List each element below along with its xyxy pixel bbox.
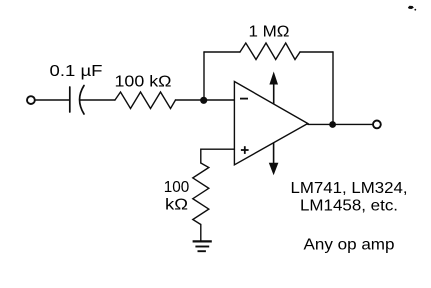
- speckle dot (scan artifact): [414, 9, 416, 11]
- capacitor C1 0.1uF left plate: [69, 87, 71, 112]
- resistor R3 100k (vertical zigzag): [193, 163, 209, 225]
- wire input to capacitor: [36, 99, 70, 101]
- V+ supply arrow (up): [269, 72, 278, 105]
- op-amp U1 plus pin label: [241, 146, 249, 154]
- svg-text:LM741, LM324,: LM741, LM324,: [291, 180, 408, 197]
- op-amp U1 minus pin label: [240, 98, 248, 100]
- op-amp U1 triangle: [234, 82, 307, 165]
- resistor R1 100k (horizontal zigzag): [115, 92, 176, 109]
- wire feedback top right: [300, 51, 333, 53]
- svg-text:100 kΩ: 100 kΩ: [115, 73, 172, 90]
- wire R1 to inverting input node: [176, 99, 235, 101]
- wire feedback top left: [204, 51, 240, 53]
- ground: [193, 241, 212, 251]
- resistor R2 1M (feedback zigzag): [240, 43, 300, 60]
- svg-text:0.1 µF: 0.1 µF: [50, 63, 103, 80]
- wire node A up to feedback: [203, 52, 205, 100]
- wire output: [308, 123, 373, 125]
- node In (input terminal): [27, 96, 35, 104]
- wire feedback right down to output: [332, 52, 334, 124]
- node A (junction dot at inverting input): [200, 97, 207, 104]
- wire capacitor to resistor R1: [80, 99, 115, 101]
- node B (junction dot at output): [329, 121, 336, 128]
- svg-text:Any op amp: Any op amp: [304, 237, 395, 254]
- wire R3 to ground: [200, 225, 202, 241]
- node Out (output terminal): [373, 121, 381, 129]
- speckle (scan artifact) top right: [408, 6, 414, 9]
- svg-text:kΩ: kΩ: [165, 196, 188, 213]
- V- supply arrow (down): [269, 143, 279, 175]
- capacitor C1 0.1uF right curved plate: [80, 86, 84, 115]
- svg-text:LM1458, etc.: LM1458, etc.: [300, 198, 398, 215]
- svg-text:1 MΩ: 1 MΩ: [249, 23, 290, 40]
- svg-text:100: 100: [164, 179, 190, 196]
- wire noninverting input: [201, 149, 235, 163]
